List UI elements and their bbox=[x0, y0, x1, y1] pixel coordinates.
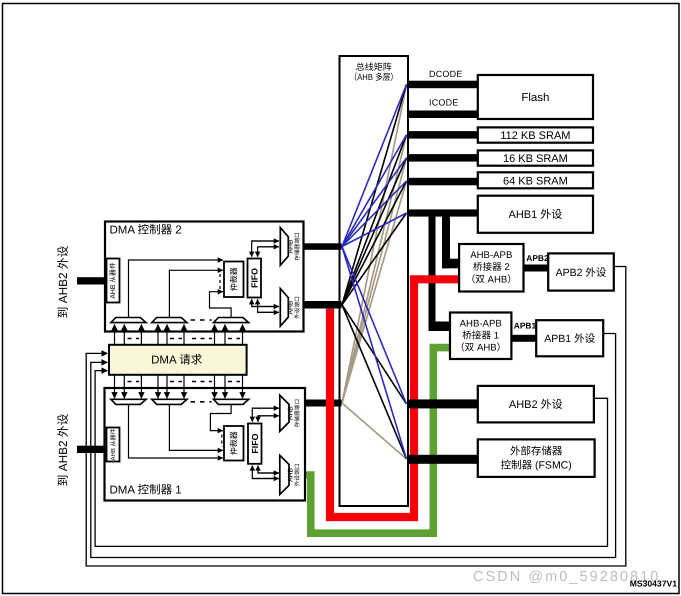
svg-text:AHB-APB: AHB-APB bbox=[470, 250, 512, 261]
bus bar matrix to 112KB SRAM bbox=[407, 131, 478, 139]
svg-text:APB1 外设: APB1 外设 bbox=[544, 333, 595, 345]
bus bar bridge1 to APB1 peripherals bbox=[511, 335, 537, 342]
svg-text:AHB 从器件: AHB 从器件 bbox=[109, 428, 117, 460]
svg-text:到 AHB2 外设: 到 AHB2 外设 bbox=[56, 413, 70, 486]
svg-text:（双 AHB）: （双 AHB） bbox=[466, 273, 517, 285]
svg-text:AHB-APB: AHB-APB bbox=[460, 318, 502, 329]
DMA2 AHB memory port trapezoid bbox=[280, 228, 288, 266]
svg-text:AHB: AHB bbox=[288, 406, 295, 420]
DMA2 FIFO box bbox=[248, 259, 262, 298]
svg-text:DCODE: DCODE bbox=[429, 69, 463, 79]
svg-text:Flash: Flash bbox=[521, 92, 549, 104]
bus bar matrix to Flash ICODE bbox=[407, 111, 478, 119]
svg-text:AHB1 外设: AHB1 外设 bbox=[509, 208, 563, 221]
DMA2 AHB peripheral port trapezoid bbox=[280, 289, 288, 327]
DMA2 memory port label bbox=[288, 232, 301, 260]
bus matrix fan: tan lines from DMA1 memory port bbox=[342, 84, 407, 459]
DMA2 wire mux3 to arbiter bbox=[210, 292, 232, 318]
svg-text:存储器端口: 存储器端口 bbox=[294, 399, 301, 427]
svg-text:外部存储器: 外部存储器 bbox=[510, 446, 563, 458]
svg-text:AHB2 外设: AHB2 外设 bbox=[509, 398, 563, 411]
DMA1 mux dots bbox=[191, 401, 212, 403]
DMA2 arbiter box bbox=[224, 262, 244, 298]
svg-text:ICODE: ICODE bbox=[429, 97, 459, 107]
DMA2 AHB slave box bbox=[107, 259, 120, 303]
bus bar matrix to FSMC bbox=[407, 455, 478, 464]
DMA1 memory port label bbox=[288, 399, 301, 427]
svg-text:总线矩阵: 总线矩阵 bbox=[356, 62, 392, 72]
left bus bar to AHB2 peripherals (DMA1) bbox=[77, 446, 105, 453]
bus bar matrix to AHB1 peripherals bbox=[407, 209, 478, 216]
DMA2 wire mux2 to arbiter bbox=[169, 270, 222, 317]
DMA2 wire mux1 to arbiter bbox=[129, 260, 223, 318]
svg-text:桥接器 2: 桥接器 2 bbox=[473, 261, 510, 273]
bus bar matrix to 64KB SRAM bbox=[407, 178, 478, 186]
DMA1 wire FIFO to peripheral port a bbox=[258, 466, 279, 474]
red path DMA2 peripheral port to bridge2 bbox=[330, 279, 459, 517]
svg-text:APB2 外设: APB2 外设 bbox=[556, 267, 607, 279]
svg-text:16 KB SRAM: 16 KB SRAM bbox=[503, 153, 568, 165]
bus bar DMA2 peripheral port to matrix bbox=[304, 301, 342, 309]
AHB2 peripherals box bbox=[478, 386, 594, 423]
request arrows down into DMA1 muxes bbox=[115, 375, 243, 398]
bus bar matrix to 16KB SRAM bbox=[407, 154, 478, 162]
DMA1 channel mux 3 bbox=[214, 399, 249, 404]
svg-text:桥接器 1: 桥接器 1 bbox=[462, 330, 499, 342]
DMA1 channel mux 1 bbox=[111, 399, 146, 404]
svg-text:（双 AHB）: （双 AHB） bbox=[455, 342, 506, 354]
DMA2 dashed channel wire bbox=[219, 274, 221, 290]
svg-text:AHB: AHB bbox=[288, 239, 295, 253]
DMA1 AHB slave box bbox=[107, 428, 120, 462]
DMA2 channel mux 1 bbox=[111, 318, 146, 323]
bus bar DMA1 memory port to matrix bbox=[304, 400, 342, 407]
AHB-APB bridge 2 box U2 bbox=[459, 244, 523, 292]
DMA1 wire FIFO to memory port b bbox=[258, 416, 279, 422]
DMA1 channel mux 2 bbox=[152, 399, 187, 404]
DMA1 FIFO box bbox=[248, 424, 262, 464]
DMA1 wire mux3 to arbiter bbox=[210, 404, 231, 430]
DMA request box bbox=[109, 345, 247, 375]
AHB1 peripherals box bbox=[478, 196, 593, 233]
svg-text:外设端口: 外设端口 bbox=[294, 296, 301, 319]
DMA1 wire FIFO to peripheral port b bbox=[252, 466, 278, 479]
DMA1 dashed channel wire bbox=[221, 435, 223, 448]
wire feedback AHB2 peripherals to DMA request bbox=[95, 371, 607, 547]
DMA1 peripheral port label bbox=[288, 464, 301, 487]
DMA2 wire FIFO to peripheral port b bbox=[258, 299, 279, 312]
DMA controller 2 box bbox=[105, 222, 304, 332]
svg-text:DMA 控制器 2: DMA 控制器 2 bbox=[110, 224, 182, 237]
svg-text:APB1: APB1 bbox=[514, 321, 537, 331]
bus matrix box U_BM bbox=[340, 56, 409, 506]
FSMC external memory controller box bbox=[478, 439, 595, 477]
DMA2 mux dots bbox=[191, 319, 212, 321]
DMA1 wire mux2 to arbiter bbox=[169, 404, 222, 450]
svg-text:64 KB SRAM: 64 KB SRAM bbox=[503, 175, 568, 187]
bus bar matrix to AHB2 peripherals bbox=[407, 399, 478, 408]
svg-text:存储器端口: 存储器端口 bbox=[294, 232, 301, 260]
bus matrix fan: blue lines from DMA2 memory port bbox=[342, 84, 407, 459]
request dashes lower row bbox=[128, 381, 241, 383]
request arrows up into DMA2 muxes bbox=[115, 324, 243, 344]
wire feedback APB1 peripherals to DMA request bbox=[91, 334, 616, 558]
DMA2 wire FIFO to memory port b bbox=[258, 247, 279, 257]
APB2 peripherals box bbox=[548, 253, 614, 290]
DMA2 channel mux 3 bbox=[214, 318, 249, 323]
svg-text:112 KB SRAM: 112 KB SRAM bbox=[500, 130, 570, 142]
DMA2 wire FIFO to peripheral port a bbox=[252, 299, 279, 306]
svg-text:AHB 从器件: AHB 从器件 bbox=[109, 262, 117, 298]
request dashes upper row bbox=[128, 338, 241, 340]
DMA1 wire FIFO to memory port a bbox=[252, 408, 278, 422]
Flash box bbox=[478, 75, 593, 119]
svg-text:AHB: AHB bbox=[288, 467, 295, 481]
left bus bar to AHB2 peripherals (DMA2) bbox=[77, 277, 105, 284]
svg-text:仲裁器: 仲裁器 bbox=[230, 267, 239, 291]
DMA1 AHB peripheral port trapezoid bbox=[280, 455, 289, 494]
bus bar AHB1 to bridge1 vertical bbox=[429, 216, 436, 331]
svg-text:控制器 (FSMC): 控制器 (FSMC) bbox=[501, 460, 572, 472]
svg-text:FIFO: FIFO bbox=[250, 433, 260, 453]
DMA1 AHB memory port trapezoid bbox=[280, 395, 289, 431]
112KB SRAM box bbox=[478, 127, 593, 142]
AHB-APB bridge 1 box U1 bbox=[450, 313, 511, 360]
DMA1 wire mux1 to arbiter bbox=[129, 404, 223, 458]
bus bar matrix to Flash DCODE bbox=[407, 81, 478, 89]
green path DMA1 peripheral port to bridge1 bbox=[304, 348, 450, 534]
DMA2 peripheral port label bbox=[288, 296, 301, 319]
DMA2 channel mux 2 bbox=[152, 318, 187, 323]
DMA controller 1 box bbox=[105, 388, 306, 501]
APB1 peripherals box bbox=[536, 320, 603, 356]
svg-text:外设端口: 外设端口 bbox=[294, 464, 301, 487]
svg-text:DMA 控制器 1: DMA 控制器 1 bbox=[110, 484, 182, 497]
wire feedback APB2 peripherals to DMA request bbox=[86, 267, 626, 567]
svg-text:DMA 请求: DMA 请求 bbox=[151, 354, 203, 367]
bus bar bridge2 to APB2 peripherals bbox=[523, 265, 549, 272]
svg-text:FIFO: FIFO bbox=[249, 268, 259, 288]
svg-text:APB2: APB2 bbox=[526, 253, 549, 263]
DMA1 arbiter box bbox=[224, 426, 244, 461]
16KB SRAM box bbox=[478, 150, 593, 165]
64KB SRAM box bbox=[478, 172, 593, 188]
bus bar AHB1 to bridge2 vertical bbox=[442, 216, 450, 268]
svg-text:到 AHB2 外设: 到 AHB2 外设 bbox=[56, 245, 70, 318]
DMA2 wire FIFO to memory port a bbox=[252, 241, 279, 257]
svg-text:AHB: AHB bbox=[288, 300, 295, 314]
bus bar DMA2 memory port to matrix bbox=[304, 243, 342, 250]
svg-text:MS30437V1: MS30437V1 bbox=[630, 579, 678, 589]
svg-text:（AHB 多层）: （AHB 多层） bbox=[350, 72, 399, 82]
bus matrix fan: black lines from DMA2 peripheral port bbox=[342, 84, 407, 459]
svg-text:仲裁器: 仲裁器 bbox=[230, 431, 239, 455]
